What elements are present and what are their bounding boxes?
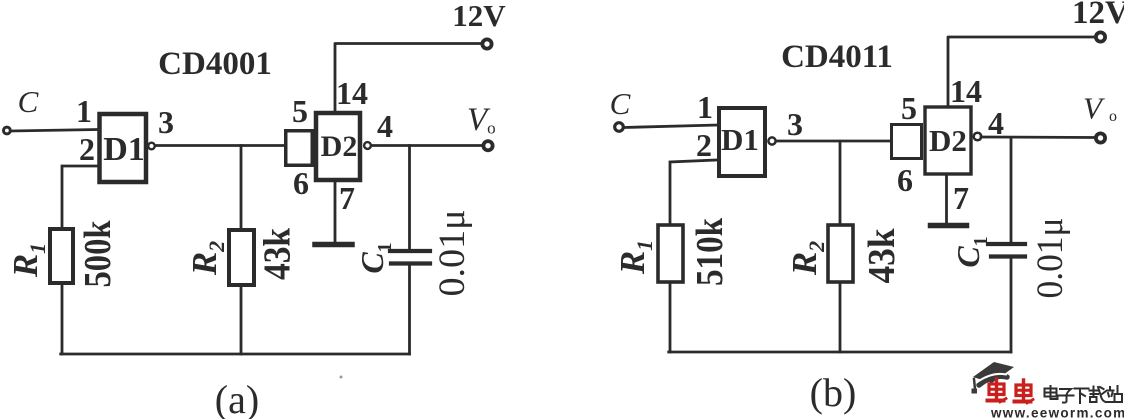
wire junction to R2 — [240, 146, 243, 229]
svg-text:500k: 500k — [77, 220, 119, 288]
gate D2 (b) — [925, 107, 971, 174]
svg-text:R2: R2 — [185, 241, 229, 276]
D2 input block pins 5-6 (a) — [286, 131, 313, 166]
gate D1 (b) — [719, 108, 765, 176]
logo text zai — [1090, 387, 1107, 403]
wire C1 to ground rail — [408, 266, 411, 355]
svg-text:C: C — [18, 84, 39, 119]
capacitor C1 (b) — [988, 244, 1025, 257]
wire D2 pin7 to ground — [334, 182, 337, 242]
terminal C input (a) — [4, 127, 11, 134]
svg-text:7: 7 — [953, 180, 969, 216]
resistor R1 (b) — [658, 225, 683, 282]
wire R1 to ground rail — [61, 285, 64, 354]
svg-text:1: 1 — [697, 89, 713, 125]
gate D1 (a) — [100, 114, 147, 182]
logo text zi — [1059, 389, 1074, 403]
wire pin14 to 12V terminal (b) — [948, 37, 1094, 105]
ground rail wire (a) — [61, 353, 410, 356]
terminal Vo (a) — [483, 141, 492, 150]
svg-text:6: 6 — [897, 162, 913, 198]
svg-text:Vo: Vo — [1083, 91, 1117, 126]
logo graduation cap — [972, 362, 1015, 394]
svg-text:5: 5 — [901, 90, 917, 126]
svg-text:C: C — [610, 86, 631, 121]
ground symbol (a) — [315, 242, 352, 248]
svg-text:D2: D2 — [321, 130, 358, 163]
resistor R1 (a) — [50, 229, 73, 283]
svg-text:7: 7 — [339, 180, 355, 216]
wire D1 output to D2 input (b) — [776, 140, 890, 143]
logo text zhan — [1106, 386, 1122, 402]
gate D2 (a) — [316, 113, 360, 180]
wire C to D1 pin1 — [11, 130, 98, 132]
svg-text:4: 4 — [988, 105, 1004, 141]
svg-text:43k: 43k — [257, 227, 299, 280]
svg-text:D2: D2 — [929, 123, 967, 158]
svg-text:3: 3 — [787, 106, 803, 142]
logo character chong 1 — [988, 379, 1007, 402]
wire C to D1 pin1 (b) — [624, 125, 717, 128]
svg-text:3: 3 — [158, 104, 174, 140]
svg-text:R2: R2 — [785, 241, 829, 276]
D2 output inversion bubble (b) — [974, 133, 982, 141]
logo text dian — [1045, 386, 1058, 399]
wire junction to R2 (b) — [839, 142, 842, 226]
D2 input block pins 5-6 (b) — [892, 125, 922, 159]
svg-text:CD4011: CD4011 — [781, 39, 893, 75]
wire D2 output to Vo terminal — [372, 144, 481, 147]
wire R1 to ground rail (b) — [669, 282, 672, 352]
svg-text:R1: R1 — [613, 240, 657, 275]
wire D1 output to D2 input — [156, 144, 284, 147]
svg-text:D1: D1 — [721, 122, 759, 157]
svg-text:0.01μ: 0.01μ — [432, 210, 473, 297]
svg-text:6: 6 — [293, 165, 309, 201]
resistor R2 (b) — [828, 225, 853, 282]
svg-text:(b): (b) — [810, 370, 857, 415]
svg-text:14: 14 — [950, 73, 982, 109]
wire Vo node to C1 (b) — [1010, 138, 1013, 243]
ground rail wire (b) — [669, 351, 1011, 354]
svg-text:Vo: Vo — [467, 102, 496, 138]
wire D2 pin7 to ground (b) — [945, 176, 948, 222]
D2 output inversion bubble (a) — [364, 142, 371, 149]
wire R2 to ground rail (b) — [839, 284, 842, 352]
svg-text:CD4001: CD4001 — [158, 46, 272, 82]
svg-text:4: 4 — [377, 108, 393, 144]
svg-text:43k: 43k — [861, 228, 903, 284]
svg-text:D1: D1 — [103, 131, 145, 168]
svg-text:2: 2 — [696, 127, 712, 163]
terminal 12V (a) — [482, 39, 491, 48]
svg-text:5: 5 — [292, 93, 308, 129]
svg-text:12V: 12V — [1072, 0, 1124, 31]
terminal 12V (b) — [1096, 32, 1105, 41]
logo character chong 2 — [1015, 380, 1034, 403]
svg-text:510k: 510k — [689, 217, 731, 286]
svg-text:14: 14 — [336, 75, 368, 111]
scan speck — [340, 376, 343, 379]
wire D1 pin2 to R1 — [62, 166, 97, 227]
svg-text:2: 2 — [79, 131, 95, 167]
svg-text:R1: R1 — [6, 243, 50, 278]
terminal C input (b) — [615, 123, 624, 132]
resistor R2 (a) — [229, 230, 254, 285]
wire C1 to ground rail (b) — [1010, 259, 1013, 353]
capacitor C1 (a) — [390, 251, 430, 264]
logo text xia — [1075, 389, 1089, 404]
D1 output inversion bubble — [148, 143, 155, 150]
svg-text:12V: 12V — [452, 0, 506, 33]
svg-text:1: 1 — [76, 93, 92, 129]
D1 output inversion bubble (b) — [768, 137, 775, 144]
svg-text:www.eeworm.com: www.eeworm.com — [990, 406, 1124, 419]
svg-text:C1: C1 — [354, 242, 396, 273]
svg-text:C1: C1 — [950, 236, 992, 267]
terminal Vo (b) — [1096, 133, 1105, 142]
wire D2 output to Vo terminal (b) — [981, 136, 1095, 139]
wire Vo node to C1 — [408, 146, 411, 250]
svg-text:0.01μ: 0.01μ — [1030, 218, 1071, 299]
wire R2 to ground rail — [240, 287, 243, 354]
wire D1 pin2 to R1 (b) — [670, 160, 717, 223]
ground symbol (b) — [931, 223, 967, 229]
wire pin14 to 12V terminal — [335, 44, 480, 112]
svg-text:(a): (a) — [215, 377, 259, 419]
